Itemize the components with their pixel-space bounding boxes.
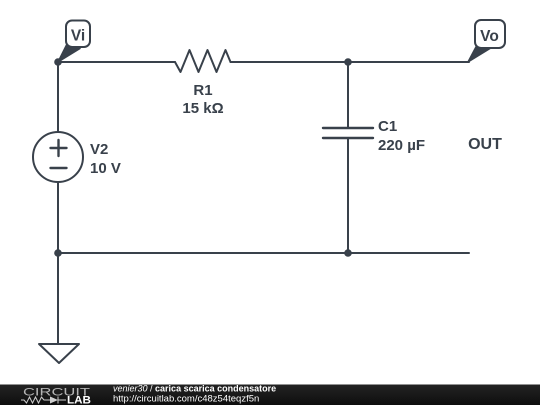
wire resistor to cap node — [231, 61, 349, 63]
svg-text:venier30 / carica scarica cond: venier30 / carica scarica condensatore — [113, 384, 276, 394]
svg-text:10 V: 10 V — [90, 160, 121, 177]
svg-text:http://circuitlab.com/c48z54te: http://circuitlab.com/c48z54teqzf5n — [113, 394, 259, 405]
V2 plus sign — [51, 147, 67, 149]
junction node at V2 bottom — [54, 249, 62, 257]
flag Vo pointer — [468, 45, 490, 62]
capacitor C1 bottom lead — [347, 138, 349, 253]
flag Vo box — [475, 20, 505, 48]
logo mini circuit: wire, resistor zigzag, diode — [21, 397, 66, 404]
svg-text:R1: R1 — [193, 82, 212, 99]
svg-text:C1: C1 — [378, 118, 397, 135]
wire cap node to Vo — [348, 61, 469, 63]
bottom wire — [58, 252, 469, 254]
ground symbol triangle — [39, 344, 79, 363]
flag Vi pointer — [58, 44, 80, 62]
svg-text:220 µF: 220 µF — [378, 137, 425, 154]
svg-text:Vi: Vi — [71, 28, 85, 45]
junction node at Vi — [54, 58, 62, 66]
wire top-left (node Vi to resistor) — [58, 61, 175, 63]
logo diode triangle — [50, 397, 58, 404]
V2 minus sign — [51, 167, 67, 169]
ground lead — [57, 253, 59, 344]
resistor R1 zigzag — [175, 50, 231, 72]
svg-text:OUT: OUT — [468, 136, 502, 153]
capacitor C1 top lead — [347, 62, 349, 128]
wire V2 top lead — [57, 62, 59, 132]
svg-text:LAB: LAB — [67, 395, 91, 405]
svg-text:V2: V2 — [90, 141, 108, 158]
voltage source V2 circle — [33, 132, 83, 182]
wire V2 bottom lead — [57, 182, 59, 253]
capacitor C1 bottom plate — [323, 137, 373, 139]
svg-text:Vo: Vo — [480, 28, 499, 45]
flag Vi box — [66, 21, 90, 48]
junction node at capacitor bottom — [344, 249, 352, 257]
svg-text:15 kΩ: 15 kΩ — [182, 100, 223, 117]
capacitor C1 top plate — [323, 127, 373, 129]
junction node at capacitor top — [344, 58, 352, 66]
